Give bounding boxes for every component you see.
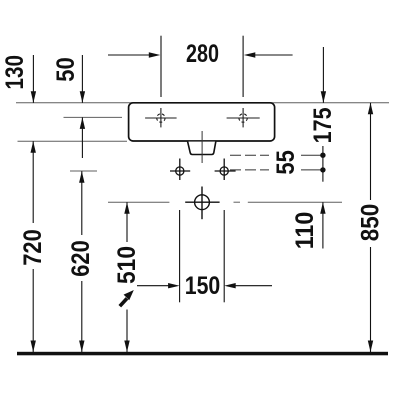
svg-text:150: 150	[185, 272, 221, 300]
svg-text:175: 175	[309, 107, 337, 143]
svg-text:620: 620	[67, 240, 95, 277]
svg-text:720: 720	[19, 229, 47, 266]
svg-text:280: 280	[186, 40, 219, 68]
svg-text:50: 50	[52, 57, 80, 82]
svg-text:850: 850	[357, 204, 385, 242]
svg-text:510: 510	[113, 246, 141, 284]
svg-text:110: 110	[291, 212, 319, 250]
svg-text:55: 55	[272, 150, 300, 175]
svg-text:130: 130	[1, 55, 29, 90]
